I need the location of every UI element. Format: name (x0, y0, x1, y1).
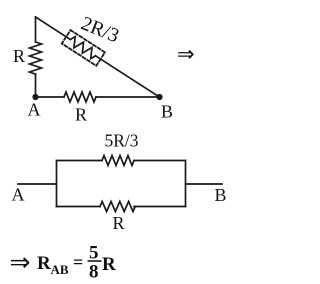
svg-text:R: R (13, 46, 25, 66)
wire terminal A (figure 2) (18, 183, 57, 185)
svg-text:A: A (28, 100, 41, 120)
dashed box around 2R/3 resistor (62, 30, 105, 66)
svg-text:AB: AB (51, 262, 69, 277)
svg-text:=: = (73, 252, 83, 272)
wire left bus (figure 2) (56, 161, 58, 207)
wire hypotenuse lower segment (96, 56, 160, 97)
resistor R (bottom branch) (100, 202, 135, 212)
wire bottom side A to resistor (36, 96, 65, 98)
svg-text:B: B (161, 102, 173, 122)
resistor 5R/3 (top branch) (102, 156, 134, 166)
svg-text:⇒: ⇒ (10, 250, 31, 277)
svg-text:A: A (12, 185, 25, 205)
svg-text:B: B (215, 185, 227, 205)
svg-text:8: 8 (89, 262, 99, 283)
wire left vertical side of triangle (top segment) (35, 17, 37, 42)
wire bottom side resistor to B (96, 96, 160, 98)
wire bottom rail left (57, 206, 101, 208)
fraction bar (88, 260, 102, 262)
svg-text:5R/3: 5R/3 (105, 131, 139, 151)
wire right bus (figure 2) (185, 161, 187, 207)
svg-text:2R/3: 2R/3 (78, 12, 122, 47)
svg-text:R: R (37, 253, 51, 274)
resistor R2 (bottom side between A and B) (64, 92, 96, 102)
svg-text:⇒: ⇒ (177, 42, 195, 66)
node A junction dot (32, 94, 38, 100)
node B junction dot (156, 94, 162, 100)
wire terminal B (figure 2) (186, 183, 223, 185)
svg-text:R: R (75, 105, 87, 125)
hypotenuse with resistor 2R/3 (31, 10, 164, 103)
resistor R1 (left side of triangle) (30, 42, 42, 74)
wire bottom rail right (134, 206, 186, 208)
wire top rail right (134, 160, 186, 162)
resistor R3 (2R/3 on hypotenuse) (68, 35, 99, 60)
wire top rail left (57, 160, 103, 162)
svg-text:R: R (102, 254, 116, 275)
wire hypotenuse upper segment (36, 17, 70, 39)
wire left vertical side of triangle (bottom segment) (35, 74, 37, 97)
svg-text:R: R (113, 213, 125, 233)
